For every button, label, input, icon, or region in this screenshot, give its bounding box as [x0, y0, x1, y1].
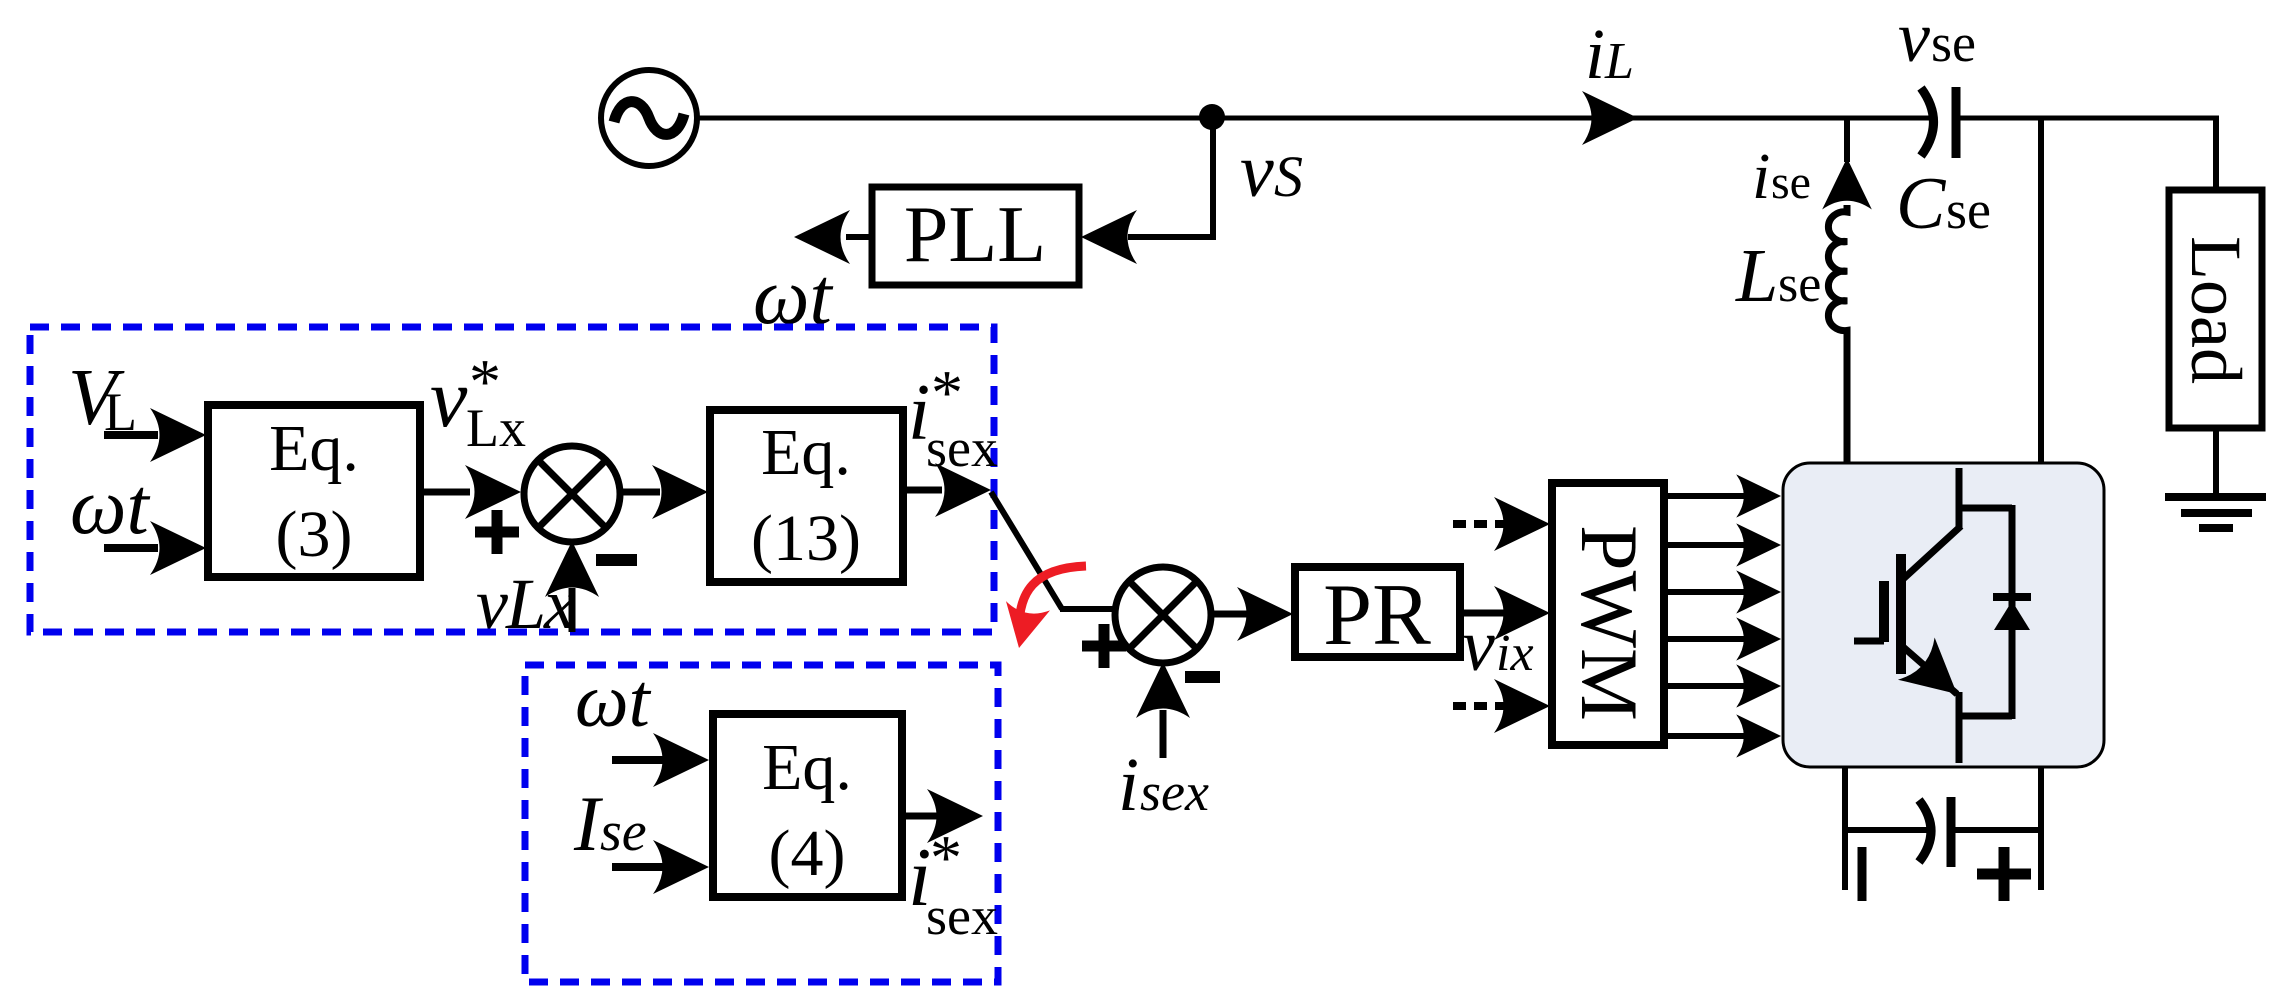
arrow Eq13 output i*sex	[903, 463, 991, 517]
svg-text:se: se	[600, 801, 647, 863]
red switch rotation arrow	[997, 566, 1086, 653]
arrow VL into Eq3	[104, 408, 206, 462]
label VL	[68, 354, 137, 442]
svg-text:i: i	[1118, 743, 1139, 827]
summing junction M2	[1115, 567, 1211, 663]
dashed input arrow bottom into PWM	[1453, 679, 1550, 733]
plus sign at M2	[1082, 624, 1126, 668]
svg-text:(3): (3)	[276, 498, 353, 571]
block Eq.(13)	[710, 410, 903, 582]
wire source to series capacitor	[695, 116, 1936, 121]
label vLx	[476, 564, 576, 644]
polarity minus mark	[1858, 847, 1867, 901]
minus sign at M2	[1185, 671, 1220, 683]
plus sign at M1	[475, 510, 519, 554]
capacitor Cse (series)	[1921, 87, 1956, 158]
svg-text:v: v	[1898, 0, 1930, 77]
svg-text:v: v	[1240, 129, 1274, 213]
svg-text:L: L	[1735, 234, 1778, 318]
converter block (IGBT bridge) U1	[1783, 463, 2104, 767]
arrow Ise into Eq4	[612, 840, 709, 894]
label wt (box1 input)	[70, 463, 150, 551]
svg-text:ωt: ωt	[575, 659, 652, 743]
svg-text:se: se	[1931, 13, 1976, 73]
svg-text:v: v	[1462, 605, 1495, 687]
dc-link capacitor plates	[1919, 797, 1951, 867]
wire node vS down to PLL	[1128, 126, 1216, 237]
svg-text:Load: Load	[2176, 236, 2256, 384]
arrowhead into PLL	[1081, 210, 1137, 264]
label v*Lx	[430, 346, 526, 458]
arrow Eq4 output i*sex	[902, 789, 983, 843]
wire capacitor to load corner	[1958, 116, 2219, 194]
svg-text:C: C	[1896, 163, 1947, 245]
label i*sex (box1 output)	[908, 357, 998, 478]
svg-text:se: se	[1778, 256, 1821, 313]
label Cse	[1896, 163, 1991, 245]
label vix	[1462, 605, 1534, 687]
arrow M1 to Eq13	[618, 465, 708, 519]
svg-text:PR: PR	[1323, 567, 1431, 664]
svg-text:ωt: ωt	[70, 463, 150, 551]
label Lse	[1735, 234, 1821, 318]
arrow wt into Eq4	[612, 733, 709, 787]
label vse	[1898, 0, 1976, 77]
svg-text:PWM: PWM	[1564, 525, 1655, 721]
svg-text:sex: sex	[1140, 762, 1209, 822]
resistor Load	[2169, 190, 2262, 428]
svg-text:(4): (4)	[769, 817, 846, 890]
wire top to converter right leg	[2038, 120, 2044, 465]
svg-text:i: i	[1585, 14, 1605, 94]
arrowhead ise up	[1822, 158, 1872, 210]
svg-text:Eq.: Eq.	[762, 731, 852, 804]
gate drive arrow 6 PWM to converter	[1664, 714, 1781, 757]
label vS	[1240, 129, 1303, 213]
inductor Lse branch with arrow ise	[1844, 120, 1850, 162]
block PWM	[1552, 483, 1664, 745]
svg-text:Eq.: Eq.	[269, 412, 359, 485]
arrow isex into M2	[1136, 662, 1190, 758]
svg-text:L: L	[1604, 33, 1634, 90]
arrow Eq3 to multiplier M1	[420, 465, 521, 519]
svg-text:PLL: PLL	[904, 191, 1046, 279]
arrow M2 to PR	[1210, 587, 1293, 641]
node vS junction dot	[1199, 104, 1225, 130]
wire load to ground	[2213, 428, 2219, 497]
svg-text:sex: sex	[926, 886, 998, 946]
ac source VS	[601, 70, 697, 166]
arrow wt into Eq3	[104, 521, 206, 575]
ground	[2165, 497, 2266, 528]
svg-text:i: i	[1752, 140, 1770, 213]
PLL output arrow wt	[794, 210, 872, 264]
block Eq.(3)	[208, 405, 420, 577]
arrow vLx into M1	[545, 541, 599, 632]
svg-text:(13): (13)	[751, 502, 861, 575]
gate drive arrow 2 PWM to converter	[1664, 523, 1781, 566]
label i*sex (box2 output)	[908, 822, 998, 946]
gate drive arrow 4 PWM to converter	[1664, 617, 1781, 660]
label ise	[1752, 140, 1811, 213]
arrow iL on wire	[1582, 91, 1638, 145]
dashed reference-generation box 2	[525, 665, 998, 982]
block PR	[1295, 567, 1460, 664]
svg-text:sex: sex	[926, 418, 998, 478]
gate drive arrow 1 PWM to converter	[1664, 474, 1781, 517]
svg-text:*: *	[930, 822, 962, 893]
label isex	[1118, 743, 1209, 827]
arrow PR to PWM vix	[1460, 586, 1550, 640]
wire dc-link capacitor right leg	[1951, 767, 2041, 890]
block PLL	[872, 187, 1079, 285]
label wt (box2 input)	[575, 659, 652, 743]
block Eq.(4)	[713, 714, 902, 897]
svg-text:se: se	[1771, 156, 1811, 209]
svg-text:se: se	[1946, 180, 1991, 240]
svg-text:S: S	[1274, 144, 1303, 209]
label wt (PLL output)	[753, 253, 833, 341]
svg-text:v: v	[430, 352, 468, 445]
switch arm	[991, 492, 1117, 609]
gate drive arrow 3 PWM to converter	[1664, 570, 1781, 613]
svg-text:ix: ix	[1496, 625, 1534, 682]
gate drive arrow 5 PWM to converter	[1664, 664, 1781, 707]
dashed input arrow top into PWM	[1453, 497, 1550, 551]
inductor Lse coil	[1828, 205, 1847, 465]
svg-text:vLx: vLx	[476, 564, 576, 644]
wire converter to dc-link capacitor left leg	[1845, 767, 1934, 890]
minus sign at M1	[596, 554, 637, 566]
polarity plus mark	[1977, 847, 2031, 901]
label iL	[1585, 14, 1634, 94]
label Ise	[573, 780, 647, 867]
svg-text:Eq.: Eq.	[761, 416, 851, 489]
dashed reference-generation box 1	[30, 327, 994, 632]
svg-text:Lx: Lx	[466, 398, 526, 458]
summing junction M1	[524, 446, 620, 542]
IGBT Q1 with anti-parallel diode	[1854, 468, 2031, 763]
